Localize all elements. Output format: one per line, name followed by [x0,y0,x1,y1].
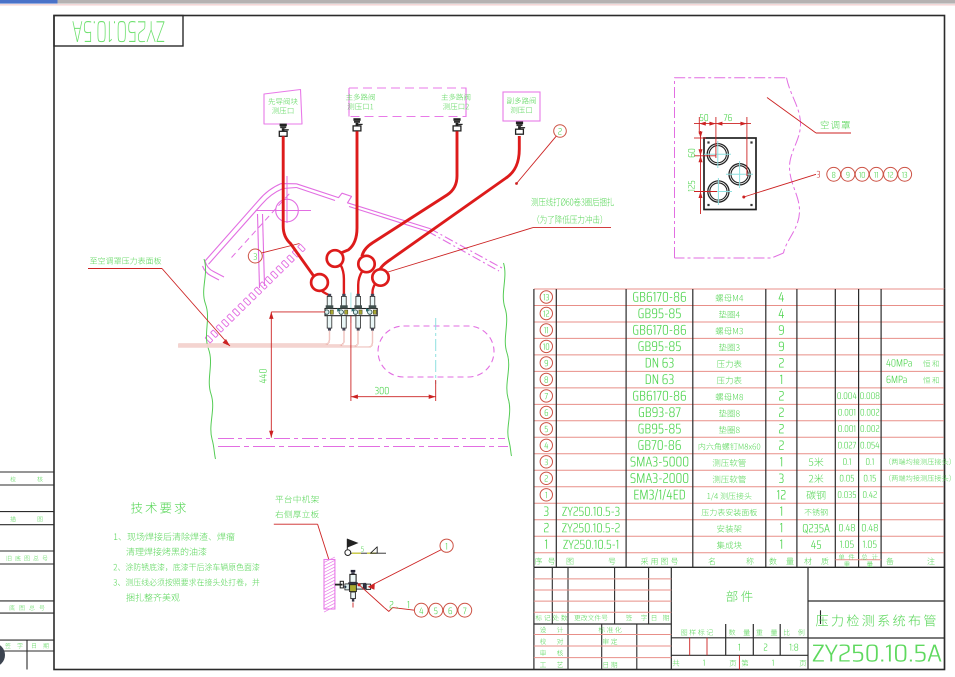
balloon row 11 [540,324,552,336]
tube 1 tail to manifold port1 [322,291,330,298]
tube 4 tail to manifold port4 [373,284,376,298]
tube 2 from box2 to coil [341,131,357,253]
mirrored drawing number ZY250.10.5A [72,21,164,42]
title block middle section lines [671,637,808,639]
left strip labels [10,476,16,481]
machine deck circle with crosshair [276,199,299,222]
balloons 4-7 [414,603,428,617]
coil loop 2 [327,250,344,267]
dim 440 vertical line with arrows [270,312,272,438]
dim 440 extension line to manifold [271,311,325,313]
tech req line 5 [126,593,179,601]
machine deck top edge with step [297,184,431,229]
platform frame label [275,495,318,503]
balloon row 8 [540,373,552,385]
manifold fitting 2 [342,294,345,297]
title block right section lines [808,600,945,602]
manifold fitting 1 [328,294,331,297]
hose note underline and leader [533,227,611,229]
right break line wavy green [503,263,511,456]
parts table horizontal lines [534,288,945,290]
hose fitting under box at x=283 [280,124,287,127]
bottom hidden line lower [218,446,508,448]
dim 300 line with arrows [351,396,436,398]
top chrome blue bar [0,0,58,4]
gauge hole 1 double circle [707,144,728,165]
tech req line 4 [113,578,259,586]
stadium centerline cyan [435,318,437,384]
ac cover dashed boundary left and top [675,78,787,258]
machine deck inner dashed edge [232,193,291,258]
connector box 2-3 dashed main valve [349,88,466,117]
title box top-left [54,16,183,47]
balloon row 1 [540,489,552,501]
balloon 2 with leader to tube4 [554,125,567,138]
tube 4 from box4 to coil [380,136,520,270]
machine deck lower-left fillet edges [205,261,224,277]
stadium slot outline dashed [378,326,494,377]
machine deck hidden edge dash-dot right [430,229,502,268]
dim 440 label [259,369,266,383]
balloon row 6 [540,406,552,418]
dim 50 label [700,114,708,121]
title block texts [726,591,752,602]
machine deck vertical member [258,214,260,288]
ac cover dashed boundary bottom [675,253,784,258]
manifold cyan centerline [350,293,352,324]
hose note text [531,198,614,207]
plain row 3 [544,506,549,516]
gauge hole 2 double circle [729,164,750,185]
balloon row 9 [540,357,552,369]
dim 76 label [724,114,732,121]
top chrome pink line [0,4,955,5]
dim 60-125 vertical line [700,131,702,214]
tube 1 from box1 to coil [283,136,314,276]
gauge hole 3 double circle [708,181,729,202]
parts table header bottom line [534,566,945,568]
plain row 1 [545,540,547,549]
balloon row 7 [540,390,552,402]
hose fitting under box at x=457 [453,118,460,121]
weld symbol flag [346,539,348,550]
balloon row 5 [540,423,552,435]
title block left signature grid [534,623,671,625]
tube 2 tail to manifold port2 [341,265,344,297]
plain row 2 [544,523,549,532]
gauge hole 3 cyan crosshair [705,191,732,193]
label 3 red [817,171,820,178]
balloons 8-13 [827,167,841,181]
dim 60 label [688,149,695,157]
coil loop 4 [372,269,388,285]
ac cover label [821,121,850,130]
coil loop 3 [358,256,374,272]
balloon 1 with leader arrow [440,539,453,552]
parts table header row text [535,558,555,565]
manifold inter-fitting arrows [337,308,341,312]
dim 125 label [688,181,695,192]
leader dot for parts 2-1 [358,583,361,586]
gauge hole 1 cyan crosshair [704,153,731,155]
dim 60-125 extension lines [694,137,706,139]
balloon row 10 [540,340,552,352]
hose bundle from manifold to left [178,331,329,344]
dim 300 label [375,387,389,394]
balloon row 8-13 leader with dot [742,196,745,199]
tech req line 3 [114,563,260,571]
dim 50-76 horizontal line [694,123,751,125]
ac cover wavy right boundary [784,78,801,253]
parts table header split line for weight cols [835,559,881,561]
tube 3 tail to manifold port3 [358,271,362,297]
tech req line 2 [126,547,206,555]
left break line wavy green [204,259,216,459]
labels 2 1 [390,601,394,608]
coil loop 1 [311,274,328,291]
tube 3 from box3 to coil [362,131,457,256]
ladder hatched strip of cells [205,244,305,343]
manifold fitting 3 [357,294,360,297]
parts table vertical lines [533,289,535,567]
balloon row 13 [540,291,552,303]
hatched plate [324,560,335,610]
title block outer lines [533,567,535,669]
connector box 1 xianDao valve [264,90,302,125]
balloon row 4 [540,439,552,451]
tech req line 1 [114,532,235,540]
label to gauge panel left [90,257,161,264]
balloon 3 left with leader [248,249,262,263]
left margin strip boxes [0,471,54,473]
hose fitting under box at x=357 [353,118,360,121]
balloon row 2 [540,472,552,484]
machine deck outline double left edge [205,184,297,261]
gauge hole 2 cyan crosshair [726,173,753,175]
top chrome gray bar [58,0,955,4]
valve detail assembly [335,584,343,586]
balloon row 12 [540,307,552,319]
panel corner dots [707,141,709,143]
balloon row 3 [540,456,552,468]
manifold rail [325,309,377,316]
dim 50-76 extension lines [698,117,700,134]
gauge mounting panel plate [704,138,756,210]
bottom hidden line upper [218,438,505,440]
manifold fitting 4 [371,294,374,297]
technical requirements title [131,502,186,513]
connector box 4 auxiliary valve [503,92,540,121]
dim 300 extension lines [350,316,352,401]
hose fitting under box at x=520 [516,122,523,125]
dark circle ui element bottom-left [0,643,5,667]
